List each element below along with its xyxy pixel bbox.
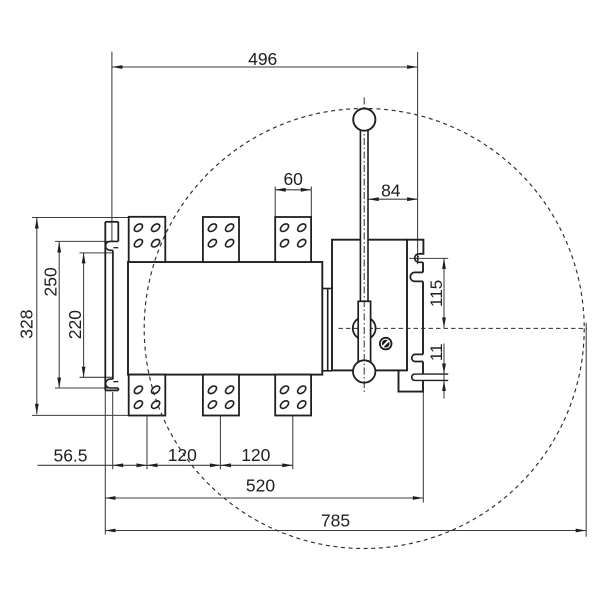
vertical center line [363, 98, 365, 393]
terminal pad top 3 [275, 217, 311, 262]
dimension 84 [368, 198, 417, 200]
dimension 120 second [292, 416, 294, 470]
svg-text:220: 220 [65, 310, 85, 339]
mounting bracket left [105, 222, 118, 391]
flange between body and mechanism box [322, 289, 332, 371]
svg-text:11: 11 [427, 343, 446, 361]
right mounting plate profile [399, 240, 449, 392]
svg-text:120: 120 [168, 445, 197, 465]
dimension 115 [409, 258, 448, 328]
dimension 520 [105, 390, 423, 534]
dimension 496 [112, 52, 418, 265]
mechanism box [332, 240, 407, 371]
svg-text:56.5: 56.5 [53, 445, 87, 465]
handle swing dashed circle [144, 109, 584, 549]
dimension 328 [32, 218, 129, 416]
terminal pad top 2 [203, 217, 239, 262]
svg-text:520: 520 [246, 476, 275, 496]
svg-text:60: 60 [283, 169, 303, 189]
handle shaft narrow [360, 130, 368, 302]
dimension 250 [55, 241, 111, 388]
dimension 220 [80, 253, 113, 377]
pivot circle [353, 317, 376, 340]
screw head [379, 337, 392, 350]
dimension 60 [275, 187, 311, 217]
svg-text:328: 328 [17, 309, 37, 338]
lower ball [353, 360, 375, 382]
dimension 56.5 [38, 392, 293, 469]
handle knob ball [353, 109, 375, 131]
dimension 11 [443, 344, 445, 399]
svg-text:120: 120 [241, 445, 270, 465]
terminal pad bottom 1 [129, 375, 166, 416]
terminal pad bottom 2 [203, 375, 239, 416]
svg-text:115: 115 [427, 280, 446, 307]
dimension 785 [105, 323, 586, 537]
terminal pad bottom 3 [275, 375, 311, 416]
main body [128, 262, 322, 375]
svg-text:496: 496 [248, 49, 277, 69]
svg-text:84: 84 [381, 181, 401, 201]
horizontal center line [339, 327, 588, 329]
dimension 120 first [147, 416, 220, 470]
handle shaft wide [358, 301, 370, 372]
svg-text:785: 785 [321, 511, 350, 531]
svg-text:250: 250 [41, 267, 61, 296]
terminal pad top 1 [129, 217, 166, 262]
